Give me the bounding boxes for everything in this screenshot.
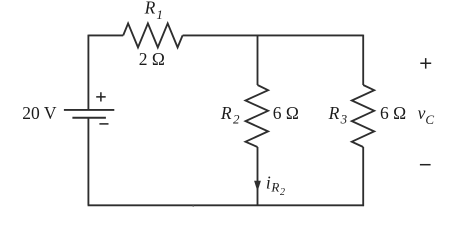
- junction blemish on bottom wire: [192, 205, 194, 207]
- svg-text:1: 1: [156, 7, 163, 22]
- wire right branch lower (R3 to bottom wire): [362, 147, 364, 206]
- wire bottom horizontal: [88, 204, 364, 206]
- svg-text:20 V: 20 V: [22, 103, 57, 123]
- wire middle branch upper (top wire to R2): [257, 35, 259, 85]
- svg-text:R: R: [144, 0, 156, 17]
- svg-text:R: R: [220, 103, 232, 123]
- svg-text:2: 2: [233, 111, 240, 126]
- svg-text:2: 2: [280, 187, 285, 198]
- resistor R3: [352, 85, 374, 147]
- polarity - of v_C: [420, 164, 431, 166]
- wire left branch upper (top wire to battery top plate): [87, 35, 89, 110]
- svg-text:R: R: [270, 180, 279, 195]
- svg-text:2 Ω: 2 Ω: [139, 49, 165, 69]
- wire top horizontal from R1 to top-right corner: [183, 34, 364, 36]
- svg-text:6 Ω: 6 Ω: [380, 103, 406, 123]
- resistor R2: [246, 85, 269, 147]
- svg-text:i: i: [266, 173, 271, 193]
- voltage source V1 20 V : long positive plate: [64, 109, 114, 111]
- wire middle branch lower (R2 to bottom wire): [257, 147, 259, 205]
- svg-text:v: v: [418, 103, 426, 123]
- wire right branch upper (top wire to R3): [362, 35, 364, 85]
- polarity + of v_C: [420, 58, 431, 69]
- svg-text:R: R: [328, 103, 340, 123]
- current arrow i_R2 (arrowhead): [254, 181, 261, 192]
- svg-text:3: 3: [340, 111, 348, 126]
- svg-text:C: C: [425, 112, 434, 127]
- polarity - of source V1: [99, 123, 108, 125]
- wire top-left horizontal segment: [88, 34, 123, 36]
- voltage source V1 20 V : short negative plate: [72, 117, 106, 119]
- resistor R1: [123, 23, 182, 47]
- svg-text:6 Ω: 6 Ω: [273, 103, 299, 123]
- polarity + of source V1: [96, 92, 106, 101]
- wire left branch lower (battery bottom plate to bottom wire): [87, 118, 89, 206]
